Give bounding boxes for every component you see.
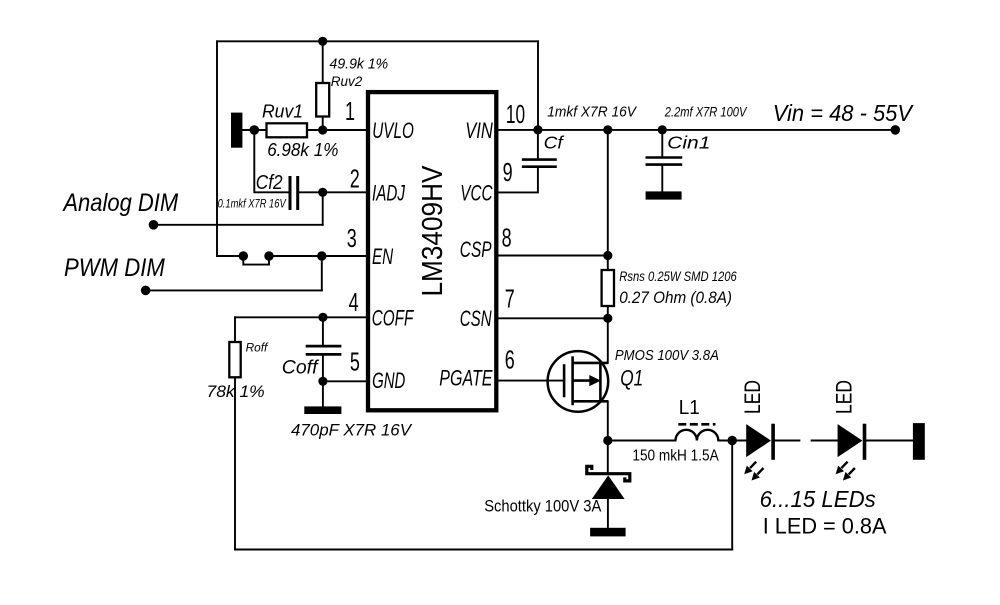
node GND junction bbox=[318, 377, 327, 386]
wire CSN node to Q1 source bbox=[607, 318, 609, 363]
resistor Ruv2 bbox=[316, 83, 329, 117]
svg-text:Coff: Coff bbox=[282, 356, 320, 378]
wire pin 8 CSP bbox=[498, 255, 607, 257]
wire LED2 cathode to terminal bbox=[866, 440, 913, 442]
LED D3 bbox=[836, 424, 865, 481]
svg-text:Roff: Roff bbox=[246, 340, 269, 354]
wire EN segment to pin 3 bbox=[269, 255, 366, 257]
transistor Q1 PMOS bbox=[548, 351, 609, 412]
wire LED2 anode segment bbox=[812, 440, 838, 442]
svg-text:Analog DIM: Analog DIM bbox=[62, 189, 179, 217]
capacitor Cin1 bbox=[646, 158, 683, 165]
node Ruv2 top junction bbox=[318, 37, 327, 46]
svg-text:Q1: Q1 bbox=[620, 366, 643, 391]
svg-text:LED: LED bbox=[832, 380, 857, 414]
svg-text:IADJ: IADJ bbox=[372, 181, 406, 206]
node Analog DIM terminal bbox=[149, 220, 159, 230]
svg-text:2.2mf X7R 100V: 2.2mf X7R 100V bbox=[664, 104, 748, 119]
svg-text:CSP: CSP bbox=[460, 237, 492, 262]
ground for Cin1 bbox=[646, 191, 682, 199]
node B Ruv1 left junction bbox=[250, 125, 260, 135]
svg-text:Vin = 48 - 55V: Vin = 48 - 55V bbox=[773, 100, 914, 126]
svg-text:PMOS 100V 3.8A: PMOS 100V 3.8A bbox=[615, 347, 719, 364]
svg-text:LM3409HV: LM3409HV bbox=[417, 165, 449, 297]
svg-text:Schottky 100V 3A: Schottky 100V 3A bbox=[484, 497, 602, 516]
svg-text:PWM DIM: PWM DIM bbox=[64, 254, 165, 282]
svg-text:6...15 LEDs: 6...15 LEDs bbox=[760, 486, 876, 512]
svg-text:2: 2 bbox=[350, 164, 360, 194]
svg-text:PGATE: PGATE bbox=[439, 366, 492, 391]
svg-text:COFF: COFF bbox=[372, 306, 415, 331]
svg-text:8: 8 bbox=[502, 223, 512, 253]
inductor L1 bbox=[676, 424, 719, 440]
wire pin 4 COFF to left corner bbox=[235, 316, 366, 318]
wire Rsns to CSN node bbox=[607, 306, 609, 318]
wire switch node to L1 bbox=[608, 440, 676, 442]
node PWM DIM terminal bbox=[141, 286, 151, 296]
wire PWM DIM lead bbox=[146, 289, 322, 291]
LED D2 bbox=[744, 424, 773, 481]
node pin1 junction bbox=[318, 125, 327, 134]
node EN junction bbox=[317, 251, 326, 260]
diode D1 Schottky bbox=[587, 466, 630, 499]
wire COFF node to Coff cap bbox=[322, 317, 324, 346]
node COFF junction bbox=[318, 313, 327, 322]
svg-text:EN: EN bbox=[372, 244, 393, 269]
wire Ruv2 top stub bbox=[322, 41, 324, 83]
svg-text:3: 3 bbox=[347, 223, 357, 253]
svg-text:CSN: CSN bbox=[460, 306, 492, 331]
node Cin1 junction bbox=[658, 125, 667, 134]
wire Ruv2 bottom stub to pin 1 bbox=[322, 117, 324, 131]
node CSP junction bbox=[603, 251, 612, 260]
node CSN junction bbox=[603, 314, 612, 323]
resistor Rsns bbox=[602, 270, 614, 306]
wire Q1 drain to switch node bbox=[607, 401, 609, 440]
wire EN jumper left segment bbox=[243, 256, 269, 265]
wire Cf bottom to pin 9 VCC bbox=[498, 167, 538, 193]
wire Ruv1 to pin 1 UVLO bbox=[307, 129, 366, 131]
svg-text:7: 7 bbox=[505, 284, 515, 314]
svg-text:1: 1 bbox=[345, 96, 355, 126]
svg-text:6: 6 bbox=[505, 344, 515, 374]
wire pin 6 PGATE to Q1 gate bbox=[498, 380, 564, 382]
svg-text:0.27 Ohm (0.8A): 0.27 Ohm (0.8A) bbox=[619, 288, 732, 307]
svg-text:6.98k 1%: 6.98k 1% bbox=[267, 140, 338, 160]
svg-text:Cf2: Cf2 bbox=[256, 172, 283, 194]
svg-text:4: 4 bbox=[349, 287, 359, 317]
wire Coff cap to GND node bbox=[322, 354, 324, 381]
wire left rail down to EN bbox=[217, 41, 243, 256]
wire bottom bus bbox=[235, 549, 732, 551]
ground for D1 bbox=[590, 528, 626, 537]
wire Roff top stub bbox=[234, 317, 236, 342]
wire GND node down to ground bbox=[322, 381, 324, 406]
resistor Roff bbox=[229, 342, 240, 377]
node switch node junction bbox=[603, 436, 612, 445]
wire LED1 cathode segment bbox=[775, 440, 800, 442]
wire Cf top stub bbox=[537, 130, 539, 160]
svg-text:GND: GND bbox=[372, 368, 405, 393]
wire LED node down to bottom bus bbox=[731, 441, 733, 550]
capacitor Cf2 bbox=[290, 176, 298, 210]
wire EN node down to PWM DIM bbox=[321, 256, 323, 290]
resistor Ruv1 bbox=[267, 123, 308, 137]
svg-text:Cin1: Cin1 bbox=[667, 132, 710, 152]
wire node B down to Cf2 bbox=[254, 130, 288, 192]
svg-text:L1: L1 bbox=[679, 397, 700, 419]
wire Rsns rail from VIN bus bbox=[607, 130, 609, 270]
LED chain output terminal bar bbox=[913, 423, 925, 460]
capacitor Cf bbox=[522, 160, 557, 167]
capacitor Coff bbox=[306, 346, 342, 354]
svg-text:Rsns 0.25W SMD 1206: Rsns 0.25W SMD 1206 bbox=[619, 268, 737, 284]
svg-text:470pF X7R 16V: 470pF X7R 16V bbox=[291, 422, 413, 440]
svg-text:Ruv1: Ruv1 bbox=[262, 102, 303, 122]
node Rsns top junction bbox=[603, 125, 612, 134]
svg-text:150 mkH 1.5A: 150 mkH 1.5A bbox=[632, 448, 719, 465]
wire switch node to D1 bbox=[607, 441, 609, 474]
svg-text:78k 1%: 78k 1% bbox=[207, 383, 265, 401]
wire Cf2 to pin 2 IADJ bbox=[299, 191, 366, 193]
ground for Coff bbox=[304, 406, 341, 414]
svg-text:UVLO: UVLO bbox=[372, 118, 414, 143]
wire D1 anode to ground bbox=[607, 498, 609, 528]
svg-text:10: 10 bbox=[506, 99, 525, 129]
svg-text:VCC: VCC bbox=[460, 181, 492, 206]
node Cf junction bbox=[533, 125, 542, 134]
wire Cin1 top stub bbox=[661, 130, 663, 158]
wire Roff bottom rail down to bottom bus bbox=[234, 377, 236, 549]
node EN jumper left bbox=[239, 251, 248, 260]
op-amp U1 LM3409HV body bbox=[368, 92, 496, 410]
wire Analog DIM lead bbox=[154, 224, 323, 226]
wire pin 10 VIN bus to Vin terminal bbox=[498, 129, 895, 131]
wire pin 5 GND bbox=[323, 380, 366, 382]
node Vin terminal bbox=[891, 125, 901, 135]
svg-text:49.9k 1%: 49.9k 1% bbox=[330, 56, 389, 73]
svg-text:Cf: Cf bbox=[544, 132, 565, 152]
svg-text:1mkf X7R 16V: 1mkf X7R 16V bbox=[547, 104, 637, 120]
input terminal bar at UVLO divider bbox=[231, 113, 242, 148]
wire L1 to LED node bbox=[718, 440, 746, 442]
wire IADJ node down to Analog DIM bbox=[322, 192, 324, 225]
node LED feedback junction bbox=[728, 436, 737, 445]
svg-text:5: 5 bbox=[350, 347, 360, 377]
svg-text:VIN: VIN bbox=[465, 118, 493, 143]
svg-text:9: 9 bbox=[503, 157, 513, 187]
node IADJ junction bbox=[318, 188, 327, 197]
node EN jumper right bbox=[264, 251, 273, 260]
wire Cin1 bottom to ground bbox=[661, 165, 663, 192]
svg-text:Ruv2: Ruv2 bbox=[331, 73, 363, 89]
wire top bus from left rail to VIN drop bbox=[217, 40, 538, 42]
svg-text:I LED = 0.8A: I LED = 0.8A bbox=[763, 514, 887, 539]
wire input bar to Ruv1 bbox=[242, 129, 266, 131]
svg-text:0.1mkf X7R 16V: 0.1mkf X7R 16V bbox=[218, 199, 287, 211]
wire VIN drop rail bbox=[537, 41, 539, 130]
svg-text:LED: LED bbox=[740, 380, 765, 414]
wire pin 7 CSN bbox=[498, 317, 607, 319]
